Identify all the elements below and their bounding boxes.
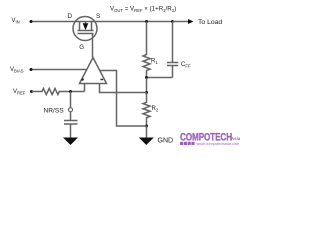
svg-text:VBIAS: VBIAS xyxy=(10,67,24,73)
ground GND right xyxy=(139,138,154,146)
node output R1 tap xyxy=(145,20,148,23)
pin NR/SS terminal xyxy=(69,108,73,112)
svg-text:Asia: Asia xyxy=(231,136,240,141)
wire top rail VIN to output xyxy=(31,21,173,23)
wire VBIAS supply xyxy=(31,69,87,71)
watermark tagline xyxy=(180,142,195,145)
watermark COMPOTECH logo xyxy=(180,131,241,146)
svg-text:VREF: VREF xyxy=(13,89,26,95)
op-amp plus input mark xyxy=(81,78,84,81)
capacitor CFF xyxy=(167,22,178,78)
ground left xyxy=(63,138,78,146)
transistor source/drain stubs xyxy=(80,22,92,31)
resistor R1 xyxy=(143,22,150,78)
resistor VREF series xyxy=(32,89,85,95)
capacitor NR/SS xyxy=(64,112,78,138)
svg-text:G: G xyxy=(79,44,84,51)
svg-text:www.compotechasia.com: www.compotechasia.com xyxy=(197,142,240,146)
svg-text:D: D xyxy=(67,13,72,20)
transistor gate bar xyxy=(78,33,94,35)
op-amp U1 error amplifier xyxy=(80,58,107,84)
transistor pass FET body xyxy=(73,17,97,41)
node R2 bottom junction xyxy=(145,125,148,128)
svg-text:CFF: CFF xyxy=(181,62,191,68)
wire plus input lead xyxy=(84,84,86,92)
node NR/SS junction xyxy=(69,90,72,93)
wire NR/SS branch xyxy=(70,92,72,108)
wire minus input lead and feedback xyxy=(100,84,147,93)
node VREF xyxy=(30,90,33,93)
node VIN xyxy=(30,20,33,23)
svg-text:R2: R2 xyxy=(152,106,159,112)
wire CFF bottom connector xyxy=(147,77,173,79)
transistor body arrow xyxy=(85,22,87,25)
svg-text:R1: R1 xyxy=(151,59,158,65)
wire R2 junction to ground xyxy=(146,126,148,138)
wire gate lead xyxy=(92,34,94,58)
wire R1 junction to feedback node xyxy=(146,78,148,93)
resistor R2 xyxy=(143,93,150,127)
transistor channel bar xyxy=(78,30,94,32)
svg-text:VIN: VIN xyxy=(12,18,20,24)
node output CFF tap xyxy=(171,20,174,23)
To Load arrow xyxy=(173,21,189,23)
node VBIAS xyxy=(30,68,33,71)
svg-text:S: S xyxy=(96,13,101,20)
node feedback junction xyxy=(145,91,148,94)
op-amp minus input mark xyxy=(100,79,103,81)
svg-text:GND: GND xyxy=(158,137,174,144)
svg-text:To Load: To Load xyxy=(198,19,222,26)
node R1 bottom junction xyxy=(145,76,148,79)
svg-text:NR/SS: NR/SS xyxy=(44,107,65,114)
wire op-amp ground return xyxy=(100,71,147,127)
